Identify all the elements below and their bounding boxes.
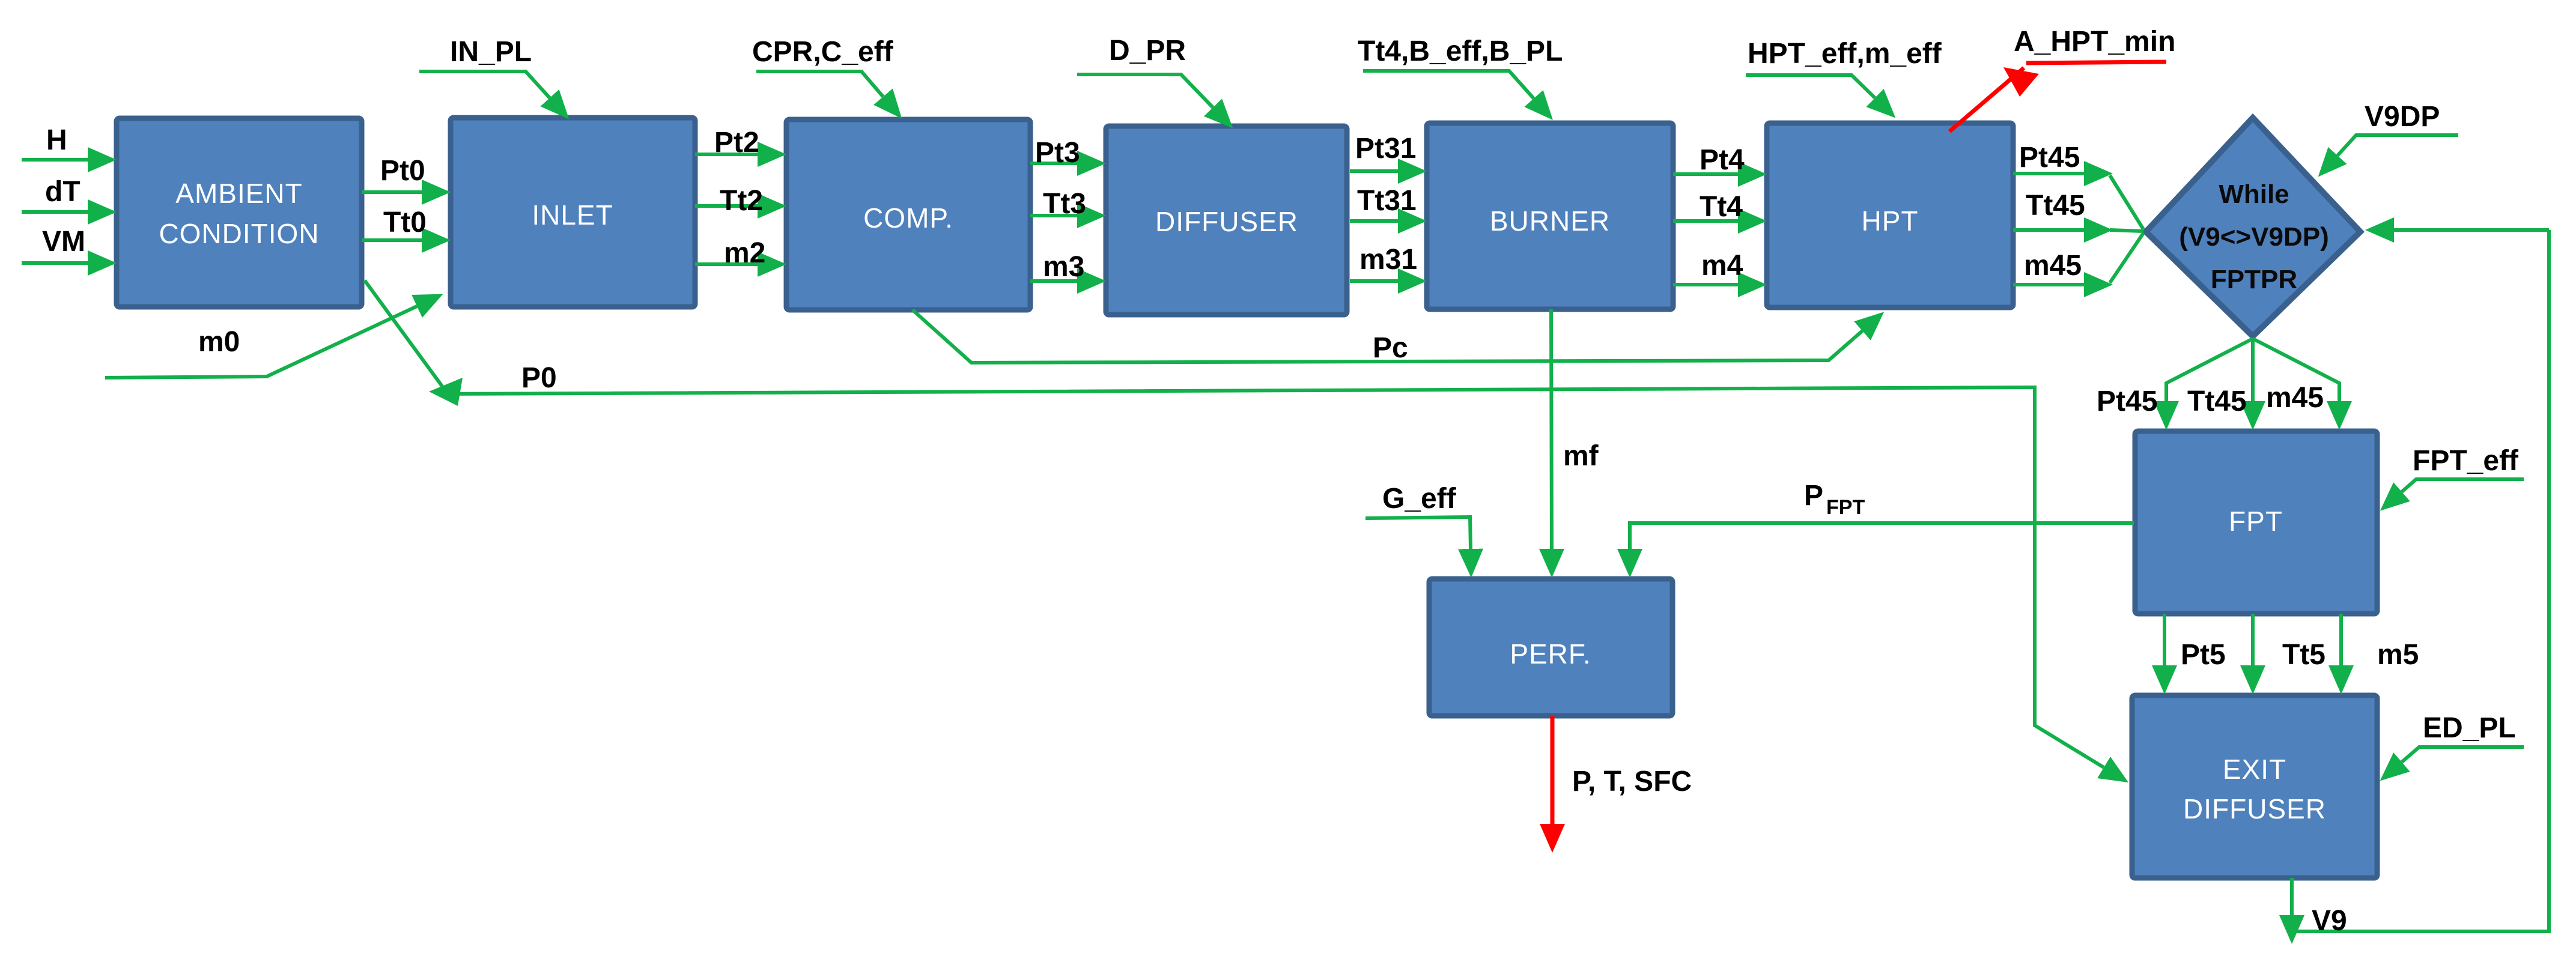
svg-text:m5: m5 [2377, 639, 2419, 671]
wire Tt0 [362, 238, 422, 242]
svg-text:BURNER: BURNER [1490, 205, 1610, 237]
wire dT input [22, 210, 88, 214]
wire Tt4 [1673, 219, 1738, 223]
svg-text:Tt4,B_eff,B_PL: Tt4,B_eff,B_PL [1358, 35, 1563, 67]
arrowhead P0 bend [429, 378, 463, 406]
wire V9 output [2290, 878, 2294, 915]
block INLET [451, 118, 695, 307]
svg-text:m0: m0 [198, 326, 240, 358]
svg-text:INLET: INLET [532, 199, 613, 231]
svg-text:m2: m2 [724, 237, 765, 269]
wire Tt45 to diamond [2013, 228, 2084, 232]
svg-text:FPT_eff: FPT_eff [2413, 445, 2519, 477]
red wire P, T, SFC output [1551, 716, 1555, 824]
wire Pt45 to diamond [2013, 172, 2084, 175]
wire Pt4 [1673, 172, 1738, 176]
svg-text:mf: mf [1563, 440, 1599, 472]
svg-text:Pt3: Pt3 [1035, 137, 1080, 169]
svg-text:CONDITION: CONDITION [159, 218, 319, 249]
svg-text:Tt2: Tt2 [720, 185, 763, 217]
svg-text:A_HPT_min: A_HPT_min [2014, 26, 2175, 58]
wire P_FPT [1630, 523, 2134, 549]
svg-text:CPR,C_eff: CPR,C_eff [752, 36, 894, 68]
svg-text:Tt4: Tt4 [1700, 191, 1743, 223]
wire Tt5 [2251, 614, 2255, 665]
wire Tt2 [695, 204, 758, 208]
wire G_eff [1365, 517, 1471, 549]
svg-text:Tt45: Tt45 [2026, 190, 2085, 222]
svg-text:PERF.: PERF. [1510, 638, 1591, 670]
wire m4 [1673, 283, 1738, 286]
svg-text:DIFFUSER: DIFFUSER [2183, 793, 2326, 824]
wire m5 [2339, 614, 2343, 665]
svg-text:(V9<>V9DP): (V9<>V9DP) [2179, 222, 2328, 252]
wire m2 [695, 262, 758, 266]
svg-text:HPT: HPT [1862, 205, 1919, 237]
svg-text:G_eff: G_eff [1382, 483, 1457, 515]
wire Pt2 [695, 153, 758, 156]
svg-text:EXIT: EXIT [2223, 754, 2286, 785]
svg-text:IN_PL: IN_PL [450, 36, 532, 68]
wire Pt5 [2163, 614, 2166, 665]
svg-text:Pt45: Pt45 [2019, 142, 2080, 174]
wire D_PR [1077, 74, 1213, 107]
block EXIT DIFFUSER [2132, 695, 2377, 878]
svg-text:P0: P0 [521, 362, 557, 394]
wire Pt0 [362, 190, 422, 194]
svg-text:P, T, SFC: P, T, SFC [1572, 766, 1692, 797]
wire feedback into diamond right [2394, 228, 2549, 232]
svg-text:While: While [2219, 180, 2289, 209]
block COMP. [786, 119, 1030, 310]
wire IN_PL [419, 71, 550, 98]
wire P0 long run to EXIT DIFFUSER [448, 387, 2104, 767]
wire m3 [1030, 279, 1077, 283]
svg-text:m45: m45 [2024, 250, 2082, 282]
wire mf [1551, 309, 1552, 549]
svg-text:Tt5: Tt5 [2282, 639, 2325, 671]
wire V9DP [2338, 135, 2458, 156]
svg-text:Pt31: Pt31 [1355, 133, 1416, 165]
block FPT [2135, 431, 2377, 614]
svg-text:V9DP: V9DP [2365, 101, 2440, 133]
wire m45 to diamond [2013, 283, 2084, 286]
wire FPT_eff [2402, 479, 2524, 492]
red arrowhead A_HPT_min [2003, 67, 2039, 97]
block PERF. [1429, 579, 1672, 716]
svg-text:D_PR: D_PR [1109, 35, 1186, 67]
svg-text:Pt2: Pt2 [714, 127, 759, 159]
wire ED_PL [2402, 747, 2524, 762]
svg-text:Tt0: Tt0 [383, 207, 427, 238]
svg-text:P: P [1804, 480, 1823, 512]
wire Tt31 [1350, 219, 1398, 223]
wire diamond to FPT Pt45 [2166, 339, 2253, 401]
svg-text:Pt45: Pt45 [2097, 386, 2157, 417]
wire Tt3 [1030, 214, 1077, 217]
svg-text:DIFFUSER: DIFFUSER [1155, 206, 1298, 237]
svg-text:m31: m31 [1359, 244, 1417, 276]
wire m31 [1350, 279, 1398, 283]
wire CPR,C_eff [756, 71, 883, 97]
svg-text:Tt45: Tt45 [2187, 386, 2247, 417]
svg-text:m45: m45 [2266, 382, 2324, 414]
wire Pt31 [1350, 169, 1398, 173]
svg-text:AMBIENT: AMBIENT [175, 178, 302, 209]
wire P0 diagonal from AMBIENT [365, 280, 445, 390]
wire H input [22, 158, 88, 162]
svg-text:FPT: FPT [2229, 506, 2283, 537]
svg-text:m3: m3 [1043, 251, 1084, 283]
svg-text:ED_PL: ED_PL [2423, 712, 2516, 744]
block HPT [1767, 123, 2013, 307]
svg-text:m4: m4 [1701, 250, 1743, 282]
svg-text:Pc: Pc [1373, 332, 1408, 364]
svg-text:FPTPR: FPTPR [2211, 265, 2297, 294]
svg-text:Pt5: Pt5 [2181, 639, 2226, 671]
svg-text:Pt4: Pt4 [1700, 144, 1745, 176]
svg-text:HPT_eff,m_eff: HPT_eff,m_eff [1748, 38, 1942, 70]
wire feedback V9 loop bottom [2295, 230, 2549, 931]
wire HPT_eff,m_eff [1746, 75, 1875, 98]
svg-text:COMP.: COMP. [863, 202, 953, 234]
wire Tt4,B_eff,B_PL [1363, 71, 1534, 98]
svg-text:FPT: FPT [1826, 496, 1865, 519]
svg-text:Pt0: Pt0 [380, 155, 425, 187]
red wire A_HPT_min [1949, 62, 2166, 132]
svg-text:dT: dT [45, 176, 80, 208]
block BURNER [1427, 123, 1673, 309]
decision diamond While (V9<>V9DP) FPTPR [2146, 118, 2360, 336]
wire Pc [913, 310, 1862, 363]
wire diamond to FPT m45 [2253, 339, 2339, 401]
svg-text:H: H [46, 124, 67, 156]
wire m0 [105, 306, 417, 378]
svg-text:V9: V9 [2312, 905, 2347, 937]
block DIFFUSER [1106, 126, 1347, 315]
svg-text:Tt31: Tt31 [1357, 185, 1417, 217]
svg-text:Tt3: Tt3 [1043, 188, 1086, 220]
block AMBIENT CONDITION [117, 118, 362, 307]
wire Pt3 [1030, 162, 1077, 165]
wire diamond to FPT Tt45 [2251, 339, 2255, 401]
wire VM input [22, 261, 88, 265]
svg-text:VM: VM [42, 226, 85, 258]
